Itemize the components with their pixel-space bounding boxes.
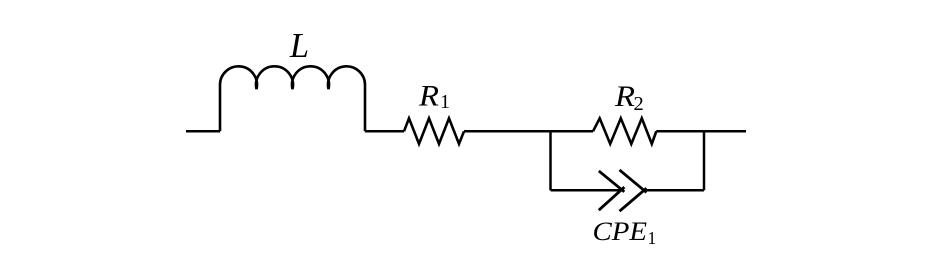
CPE CPE1 chevron 2 <box>620 170 647 211</box>
wire bottom branch right <box>643 189 704 192</box>
wire inductor to R1 <box>365 130 404 133</box>
wire node A to R2 <box>551 130 594 133</box>
wire left branch down <box>549 131 552 190</box>
svg-text:CPE: CPE <box>593 217 648 246</box>
svg-text:2: 2 <box>634 93 644 115</box>
wire R1 to node A <box>464 130 551 133</box>
resistor R1 <box>404 118 464 144</box>
svg-text:R: R <box>418 81 439 113</box>
svg-text:1: 1 <box>648 228 657 248</box>
inductor L <box>220 66 365 131</box>
svg-text:R: R <box>614 81 635 113</box>
svg-text:L: L <box>289 27 309 65</box>
wire R2 to node B and right terminal <box>656 130 746 133</box>
resistor R2 <box>593 118 656 144</box>
svg-text:1: 1 <box>440 91 450 113</box>
wire bottom branch left <box>551 189 625 192</box>
wire left terminal <box>186 130 220 133</box>
wire right branch up <box>703 131 706 190</box>
CPE CPE1 chevron 1 <box>599 171 625 210</box>
